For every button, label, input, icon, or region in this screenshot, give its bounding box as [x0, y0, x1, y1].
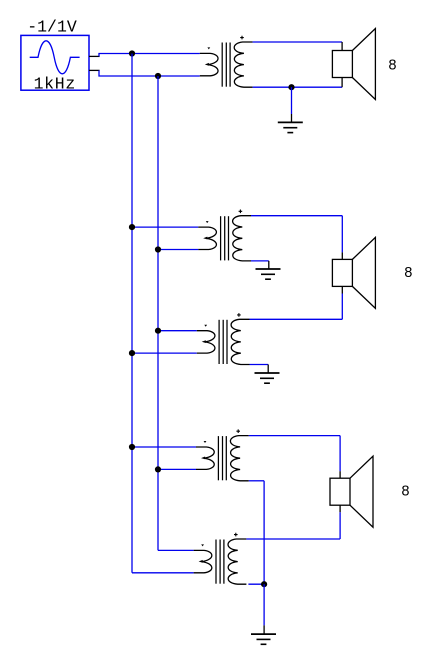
wire top rail to T1 primary [132, 53, 200, 55]
node bus B / T3 [155, 328, 161, 334]
wire T3 secondary bottom to ground 3 [250, 364, 269, 366]
ground G3 [255, 373, 280, 383]
wire bus A to T4 primary top [132, 446, 196, 448]
wire SP3 top stub (blue) [339, 436, 341, 472]
wire bus A vertical [131, 54, 133, 573]
node bus B / T2 [155, 246, 161, 252]
wire SP2 top stub (black) [341, 252, 343, 259]
svg-text:8: 8 [404, 266, 413, 282]
ground G2 [256, 269, 281, 279]
wire bus A to T3 primary bottom [132, 352, 197, 354]
node bus A / T2 [129, 224, 135, 230]
wire SP3 top stub (black) [339, 471, 341, 478]
svg-text:8: 8 [388, 59, 397, 75]
label -1/1V [27, 17, 77, 36]
node ground junction 4 [261, 581, 267, 587]
node junction bus B top [155, 73, 161, 79]
wire T2 secondary top to SP2 [251, 215, 342, 217]
svg-text:-1/1V: -1/1V [27, 17, 77, 36]
wire source terminal stub top [89, 55, 100, 57]
wire bus B to T3 primary top [158, 330, 197, 332]
wire T5 secondary top to SP3 [246, 538, 340, 540]
wire T1 secondary bottom to SP1 [253, 86, 343, 88]
node bus B / T4 [155, 466, 161, 472]
wire ground 1 stem (black) [291, 114, 293, 122]
wire SP3 bottom stub (black) [339, 505, 341, 512]
wire SP1 top stub [341, 42, 343, 51]
transformer T4 [196, 429, 249, 480]
label 8 (SP3) [401, 485, 410, 501]
node junction bus A top [129, 50, 135, 56]
wire source terminal stub bottom [89, 69, 100, 71]
wire T1 secondary top to SP1 [253, 41, 343, 43]
label 8 (SP2) [404, 266, 413, 282]
wire ground 4 stem (black) [263, 625, 265, 633]
wire bus B corner to T5 primary top [158, 549, 194, 551]
wire jog to bottom rail [99, 70, 158, 76]
svg-text:1kHz: 1kHz [34, 74, 76, 93]
wire SP2 to T3 secondary top [250, 318, 343, 320]
transformer T3 [197, 313, 250, 364]
wire T4 secondary bottom down to node [263, 481, 265, 584]
wire ground 2 stem [268, 261, 270, 269]
node bus A / T4 [129, 444, 135, 450]
wire SP3 bottom stub (blue) [339, 512, 341, 539]
wire ground 4 stem (blue) [263, 584, 265, 625]
ground G1 [278, 122, 303, 132]
svg-text:8: 8 [401, 485, 410, 501]
wire SP2 top stub (blue) [341, 216, 343, 253]
speaker SP3 [330, 456, 373, 527]
wire SP2 bottom stub (black) [341, 286, 343, 293]
wire T2 secondary bottom to ground 2 [251, 260, 269, 262]
label 1kHz [34, 74, 76, 93]
wire ground 1 stem (blue) [291, 87, 293, 114]
wire SP1 bottom stub [341, 78, 343, 88]
transformer T2 [198, 210, 251, 261]
ground G4 [251, 634, 276, 644]
node bus A / T3 [129, 350, 135, 356]
wire bus B vertical [157, 76, 159, 550]
wire T4 secondary bottom across [249, 480, 264, 482]
wire bus A corner to T5 primary bottom [132, 572, 194, 574]
speaker SP2 [332, 237, 375, 308]
transformer T1 [200, 36, 253, 87]
speaker SP1 [332, 29, 375, 100]
wire T4 secondary top to SP3 [249, 435, 340, 437]
wire bus A to T2 primary top [132, 226, 198, 228]
label 8 (SP1) [388, 59, 397, 75]
wire bus B to T4 primary bottom [158, 468, 196, 470]
node ground junction 1 [288, 84, 294, 90]
wire SP2 bottom stub (blue) [341, 294, 343, 320]
wire bottom rail to T1 primary [158, 75, 200, 77]
transformer T5 [194, 533, 247, 584]
sine source V1 box [21, 35, 89, 90]
wire jog to top rail [99, 54, 132, 57]
wire bus B to T2 primary bottom [158, 249, 198, 251]
wire T5 secondary bottom to node [248, 583, 264, 585]
sine source V1 waveform [30, 41, 80, 74]
wire ground 3 stem [267, 365, 269, 373]
